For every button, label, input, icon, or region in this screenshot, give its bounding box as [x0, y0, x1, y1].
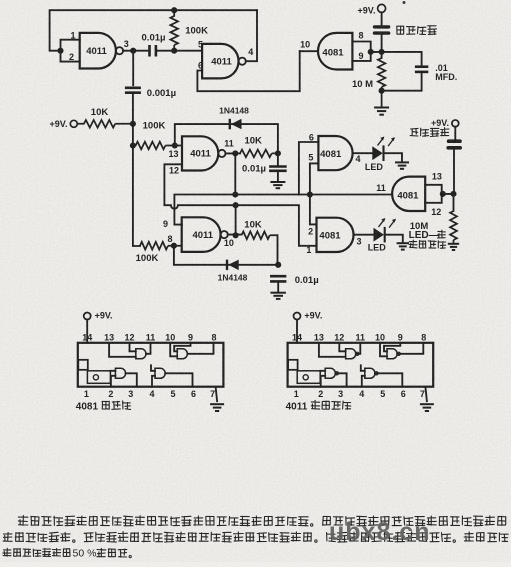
internal gate bottom-right	[365, 368, 375, 378]
wire output 10	[228, 234, 242, 237]
resistor 10M right	[450, 211, 457, 243]
internal marker box pin1	[87, 371, 110, 384]
diode D1 1N4148 top	[175, 124, 278, 153]
op-amp U8 gate 4081 mirrored pins 8,9 out 10	[318, 33, 352, 70]
wire toss node	[381, 35, 383, 58]
capacitor 0.001u	[132, 51, 134, 85]
IC pinout body	[288, 343, 434, 387]
capacitor 0.01u at node 11	[277, 153, 279, 166]
wire U6 pin2 riser	[310, 195, 317, 225]
wire gate2 pin6 to U-D output	[197, 51, 299, 91]
toss touch contact plates	[373, 25, 391, 28]
wire net A (output 11 rail)	[174, 153, 392, 224]
internal gate top-right	[177, 349, 187, 359]
internal gate bottom-left	[325, 368, 335, 378]
op-amp U7 gate 4081 mirrored pins 13,12 out 11	[392, 177, 425, 211]
ground pinout	[425, 387, 427, 402]
LED D3	[353, 153, 402, 161]
wire top feedback rail	[50, 10, 257, 51]
capacitor .01 MFD loop	[382, 52, 422, 91]
wire U7 input tie to observe contact	[425, 185, 453, 203]
wire U5 inputs	[299, 142, 319, 195]
internal marker box pin1	[297, 371, 320, 384]
op-amp U1 gate 4011 pins 1,2 out 3	[69, 30, 123, 68]
diode D2 1N4148 bottom	[174, 235, 278, 264]
ground LED1	[395, 162, 409, 168]
resistor 100K lower	[140, 242, 182, 250]
wire gate2 output feedback	[246, 10, 257, 61]
op-amp U6 gate 4081 pins 2,1 out 3 with LED	[317, 218, 354, 252]
wire U8 input tie	[352, 42, 381, 61]
resistor 10K upper	[240, 150, 278, 158]
wire net B (output 10 rail) with hop	[164, 164, 316, 246]
resistor 10K left	[77, 120, 133, 128]
op-amp U2 gate 4011 pins 5,6 out 4	[202, 44, 238, 79]
LED D4	[354, 235, 403, 243]
observe touch contact plates	[447, 139, 462, 143]
ground pinout	[216, 387, 218, 402]
IC pinout body	[78, 343, 224, 387]
resistor 100K mid	[133, 142, 182, 150]
op-amp U3 gate 4011 pins 13,12 out 11	[182, 136, 218, 170]
op-amp U5 gate 4081 pins 6,5 out 4 with LED	[318, 136, 352, 170]
resistor 100K top	[170, 10, 178, 51]
speck	[403, 1, 406, 4]
ground observe block	[448, 244, 459, 250]
resistor 10M left	[378, 58, 385, 107]
wire left bus	[133, 124, 140, 246]
ground under bottom cap	[270, 293, 286, 299]
internal gate bottom-right	[155, 368, 165, 378]
ground toss block	[374, 108, 389, 115]
wire U8 output	[300, 50, 318, 52]
caption line 1	[18, 516, 506, 526]
label toss contact	[397, 26, 437, 35]
caption line 3	[3, 548, 70, 556]
internal gate bottom-left	[115, 368, 125, 378]
wire output 11	[226, 152, 241, 154]
resistor 10K lower	[242, 232, 278, 240]
label observe contact	[410, 128, 449, 137]
internal gate top-right	[387, 349, 397, 359]
internal gate top-left	[346, 349, 356, 359]
wire node 3	[123, 50, 149, 52]
capacitor 0.01u at node 10	[270, 276, 286, 281]
capacitor 0.01u coupling	[150, 45, 156, 57]
ground LED2	[397, 243, 410, 249]
wire gate1 input tie	[61, 40, 80, 62]
caption line 2	[3, 532, 508, 542]
ground under cap	[270, 182, 285, 188]
op-amp U4 gate 4011 pins 9,8 out 10	[182, 217, 221, 252]
internal gate top-left	[136, 349, 146, 359]
